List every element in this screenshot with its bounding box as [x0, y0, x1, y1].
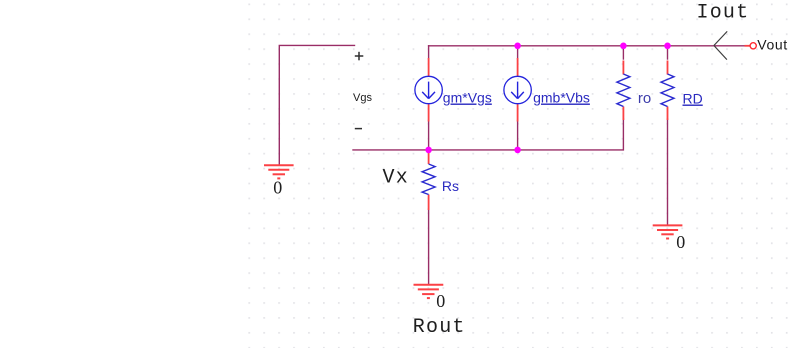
svg-text:0: 0 [676, 232, 685, 252]
svg-text:Iout: Iout [697, 2, 750, 25]
svg-text:Vgs: Vgs [353, 92, 372, 104]
svg-text:Vx: Vx [383, 167, 409, 190]
svg-text:ro: ro [638, 90, 651, 107]
svg-text:0: 0 [436, 291, 445, 311]
svg-text:Rout: Rout [413, 316, 466, 339]
svg-text:0: 0 [273, 178, 282, 198]
svg-text:Vout: Vout [757, 37, 787, 53]
svg-text:RD: RD [683, 91, 703, 107]
svg-text:gmb*Vbs: gmb*Vbs [533, 90, 590, 106]
svg-text:gm*Vgs: gm*Vgs [443, 90, 492, 106]
svg-text:Rs: Rs [442, 178, 459, 194]
